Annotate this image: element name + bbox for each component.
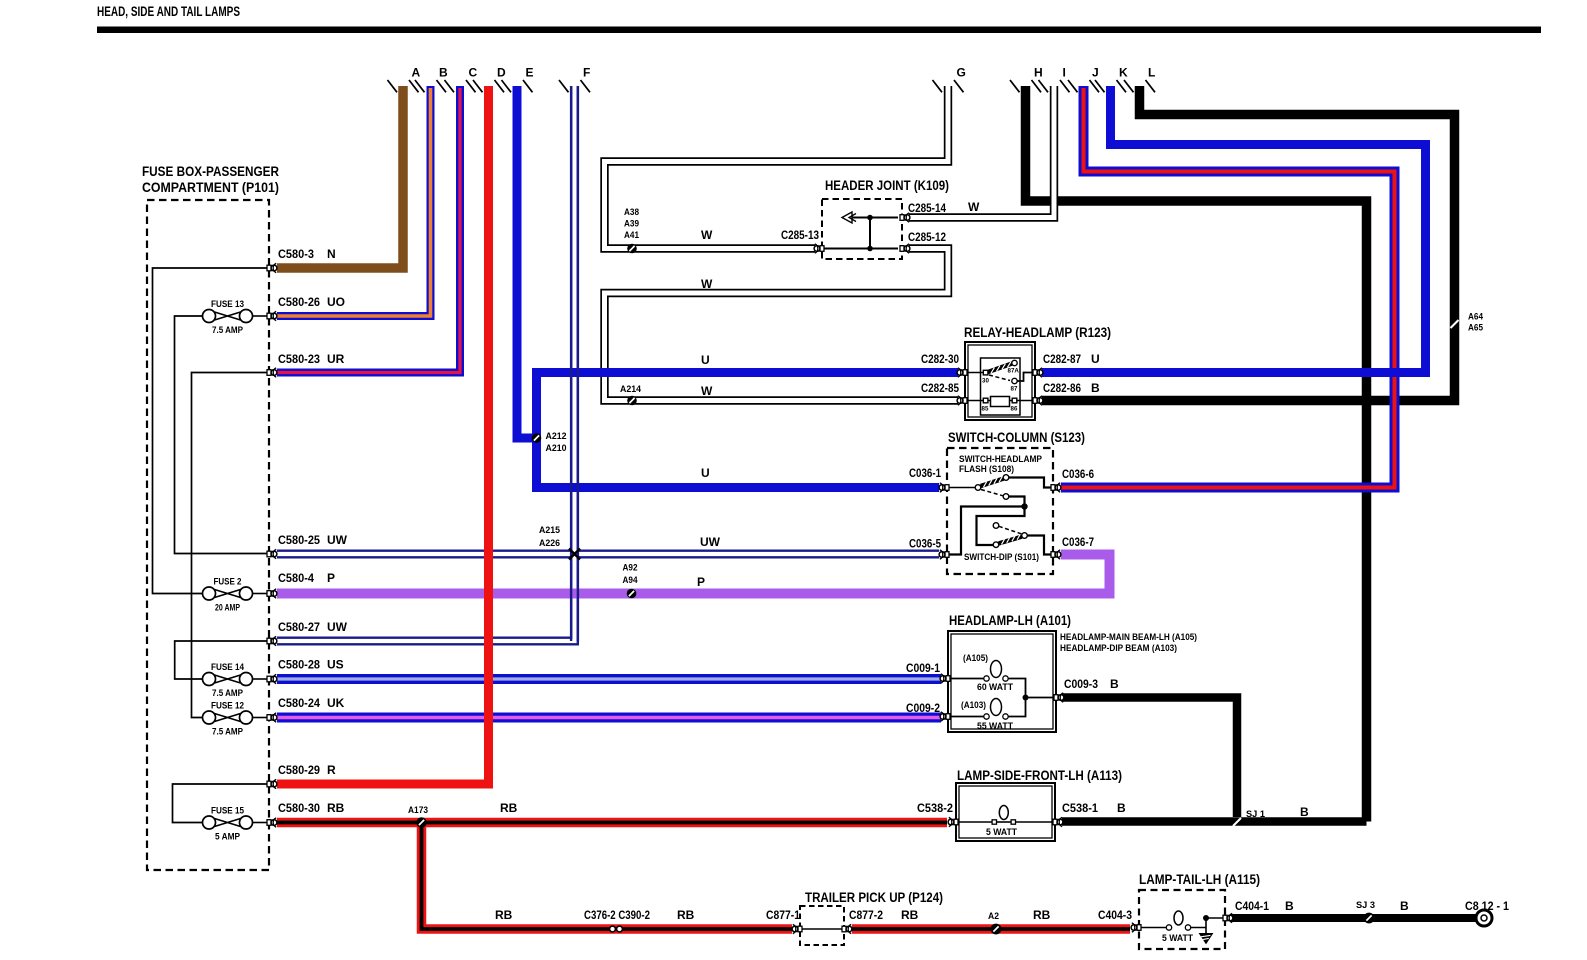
svg-text:C282-30: C282-30	[921, 352, 959, 366]
svg-text:FUSE 13: FUSE 13	[211, 299, 244, 310]
svg-text:55 WATT: 55 WATT	[977, 721, 1013, 732]
svg-text:C285-13: C285-13	[781, 228, 819, 242]
svg-text:A214: A214	[620, 384, 642, 395]
svg-text:A92: A92	[623, 563, 638, 574]
svg-text:85: 85	[982, 406, 989, 413]
svg-text:US: US	[327, 658, 344, 672]
svg-text:60 WATT: 60 WATT	[977, 682, 1013, 693]
svg-text:C036-7: C036-7	[1062, 535, 1094, 549]
svg-text:D: D	[497, 66, 506, 80]
svg-text:C036-1: C036-1	[909, 466, 941, 480]
svg-text:FUSE 15: FUSE 15	[211, 806, 245, 817]
svg-text:C580-3: C580-3	[278, 247, 314, 261]
svg-text:UK: UK	[327, 696, 345, 710]
svg-text:(A103): (A103)	[961, 700, 986, 711]
svg-text:C580-26: C580-26	[278, 295, 320, 309]
svg-text:P: P	[697, 575, 705, 589]
svg-text:A2: A2	[988, 911, 999, 922]
svg-text:C: C	[469, 66, 478, 80]
svg-text:C009-2: C009-2	[906, 701, 940, 715]
svg-text:TRAILER PICK UP (P124): TRAILER PICK UP (P124)	[805, 890, 943, 905]
svg-text:7.5 AMP: 7.5 AMP	[212, 325, 244, 336]
svg-text:RB: RB	[500, 801, 518, 815]
svg-text:C538-2: C538-2	[917, 801, 953, 815]
svg-text:C580-27: C580-27	[278, 620, 320, 634]
svg-text:SJ 1: SJ 1	[1246, 809, 1266, 820]
svg-text:U: U	[701, 353, 710, 367]
svg-text:A94: A94	[623, 575, 639, 586]
svg-text:G: G	[957, 66, 966, 80]
svg-text:A226: A226	[539, 538, 560, 549]
svg-text:7.5 AMP: 7.5 AMP	[212, 727, 244, 738]
svg-text:A39: A39	[624, 219, 639, 230]
svg-text:C580-30: C580-30	[278, 801, 320, 815]
svg-text:B: B	[1300, 805, 1309, 819]
svg-text:UR: UR	[327, 352, 345, 366]
svg-text:HEADLAMP-MAIN BEAM-LH (A105): HEADLAMP-MAIN BEAM-LH (A105)	[1060, 632, 1197, 643]
svg-text:C580-28: C580-28	[278, 658, 320, 672]
svg-text:L: L	[1148, 66, 1155, 80]
svg-text:H: H	[1034, 66, 1043, 80]
svg-text:A41: A41	[624, 230, 640, 241]
svg-text:RB: RB	[1033, 908, 1051, 922]
svg-text:A212: A212	[546, 431, 567, 442]
svg-text:A65: A65	[1468, 323, 1484, 334]
svg-text:RB: RB	[901, 908, 919, 922]
svg-text:87A: 87A	[1008, 368, 1020, 375]
svg-text:HEAD, SIDE AND TAIL LAMPS: HEAD, SIDE AND TAIL LAMPS	[97, 4, 240, 19]
svg-text:W: W	[701, 228, 713, 242]
svg-text:A64: A64	[1468, 312, 1484, 323]
svg-text:A215: A215	[539, 525, 561, 536]
svg-text:HEADER JOINT (K109): HEADER JOINT (K109)	[825, 178, 949, 193]
svg-text:HEADLAMP-LH (A101): HEADLAMP-LH (A101)	[949, 613, 1071, 628]
svg-text:C580-23: C580-23	[278, 352, 320, 366]
svg-text:C036-5: C036-5	[909, 537, 941, 551]
svg-text:HEADLAMP-DIP BEAM (A103): HEADLAMP-DIP BEAM (A103)	[1060, 643, 1177, 654]
svg-text:N: N	[327, 247, 336, 261]
svg-text:SWITCH-COLUMN (S123): SWITCH-COLUMN (S123)	[948, 430, 1085, 445]
svg-text:FUSE 14: FUSE 14	[211, 662, 245, 673]
svg-text:B: B	[1117, 801, 1126, 815]
svg-text:C036-6: C036-6	[1062, 467, 1094, 481]
svg-text:U: U	[701, 466, 710, 480]
svg-text:R: R	[327, 763, 336, 777]
svg-text:C538-1: C538-1	[1062, 801, 1098, 815]
svg-text:W: W	[701, 384, 713, 398]
svg-text:C580-24: C580-24	[278, 696, 320, 710]
svg-text:B: B	[1285, 899, 1294, 913]
svg-text:SWITCH-DIP (S101): SWITCH-DIP (S101)	[964, 552, 1039, 563]
svg-text:FLASH (S108): FLASH (S108)	[959, 464, 1014, 475]
svg-text:A: A	[412, 66, 421, 80]
svg-text:FUSE 12: FUSE 12	[211, 701, 244, 712]
svg-text:C580-29: C580-29	[278, 763, 320, 777]
svg-text:5 WATT: 5 WATT	[986, 827, 1017, 838]
svg-text:UW: UW	[327, 620, 348, 634]
svg-text:C404-3: C404-3	[1098, 908, 1132, 922]
svg-text:C580-4: C580-4	[278, 571, 314, 585]
svg-text:A173: A173	[408, 805, 428, 816]
svg-text:J: J	[1092, 66, 1099, 80]
svg-text:C282-85: C282-85	[921, 381, 959, 395]
svg-text:RB: RB	[495, 908, 513, 922]
svg-text:FUSE 2: FUSE 2	[214, 577, 242, 588]
svg-text:C877-2: C877-2	[849, 908, 883, 922]
svg-text:F: F	[583, 66, 590, 80]
svg-text:COMPARTMENT (P101): COMPARTMENT (P101)	[142, 180, 279, 195]
svg-text:UO: UO	[327, 295, 345, 309]
svg-text:(A105): (A105)	[963, 653, 988, 664]
svg-text:C580-25: C580-25	[278, 533, 320, 547]
svg-text:C009-1: C009-1	[906, 661, 940, 675]
svg-text:LAMP-TAIL-LH (A115): LAMP-TAIL-LH (A115)	[1139, 872, 1260, 887]
svg-text:C376-2 C390-2: C376-2 C390-2	[584, 908, 650, 922]
svg-text:C8 12 - 1: C8 12 - 1	[1465, 899, 1509, 913]
svg-text:P: P	[327, 571, 335, 585]
svg-text:86: 86	[1011, 406, 1018, 413]
svg-text:5 WATT: 5 WATT	[1162, 933, 1193, 944]
svg-text:30: 30	[982, 378, 989, 385]
svg-text:UW: UW	[327, 533, 348, 547]
svg-text:E: E	[526, 66, 534, 80]
svg-text:20 AMP: 20 AMP	[215, 603, 240, 614]
svg-text:C009-3: C009-3	[1064, 677, 1098, 691]
svg-text:C877-1: C877-1	[766, 908, 800, 922]
svg-text:SJ 3: SJ 3	[1356, 900, 1375, 911]
svg-text:RELAY-HEADLAMP (R123): RELAY-HEADLAMP (R123)	[964, 325, 1111, 340]
svg-text:87: 87	[1011, 386, 1018, 393]
svg-text:B: B	[439, 66, 448, 80]
svg-text:W: W	[968, 200, 980, 214]
svg-text:W: W	[701, 277, 713, 291]
svg-text:C282-86: C282-86	[1043, 381, 1081, 395]
svg-text:FUSE BOX-PASSENGER: FUSE BOX-PASSENGER	[142, 164, 279, 179]
svg-text:C404-1: C404-1	[1235, 899, 1269, 913]
svg-text:B: B	[1091, 381, 1100, 395]
svg-text:C282-87: C282-87	[1043, 352, 1081, 366]
svg-text:C285-12: C285-12	[908, 230, 946, 244]
svg-text:5 AMP: 5 AMP	[215, 832, 241, 843]
svg-text:K: K	[1119, 66, 1128, 80]
svg-text:I: I	[1063, 66, 1066, 80]
svg-text:RB: RB	[327, 801, 345, 815]
svg-text:UW: UW	[700, 535, 721, 549]
svg-text:RB: RB	[677, 908, 695, 922]
svg-text:B: B	[1400, 899, 1409, 913]
svg-text:A210: A210	[546, 443, 567, 454]
svg-text:A38: A38	[624, 207, 639, 218]
svg-text:7.5 AMP: 7.5 AMP	[212, 688, 244, 699]
svg-text:B: B	[1110, 677, 1119, 691]
svg-text:U: U	[1091, 352, 1100, 366]
svg-text:LAMP-SIDE-FRONT-LH (A113): LAMP-SIDE-FRONT-LH (A113)	[957, 768, 1122, 783]
svg-text:C285-14: C285-14	[908, 201, 946, 215]
